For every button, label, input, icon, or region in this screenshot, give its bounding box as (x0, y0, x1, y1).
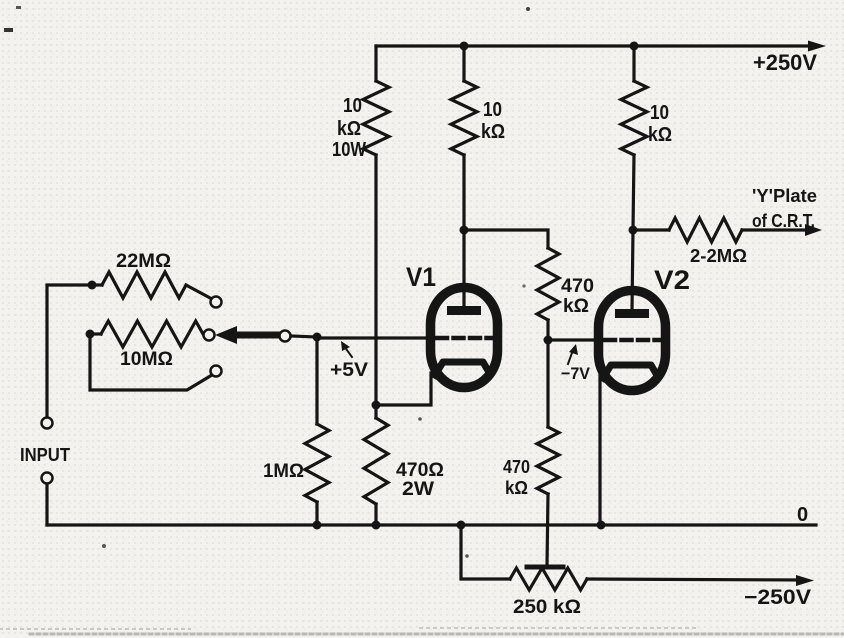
svg-text:kΩ: kΩ (563, 296, 589, 317)
tube V2 envelope (599, 291, 666, 391)
svg-text:V2: V2 (654, 265, 690, 295)
wire V1 cathode lead (376, 373, 431, 405)
wire input left riser (47, 285, 102, 418)
wire output lead to CRT (742, 228, 812, 231)
svg-text:10: 10 (483, 99, 502, 121)
svg-text:0: 0 (797, 504, 808, 526)
scan speck near 470R (418, 417, 422, 421)
tube V1 anode plate bar (447, 306, 481, 315)
svg-text:of C.R.T.: of C.R.T. (752, 211, 815, 231)
tube V1 grid (dashed) (437, 336, 493, 341)
scan speck near pot (465, 554, 469, 558)
wire R7 lead to contact (186, 285, 212, 299)
wire V2 anode lead (632, 230, 633, 311)
node 0 rail / 470R junction (372, 521, 381, 530)
wire +250V supply rail (376, 44, 815, 47)
svg-text:10: 10 (650, 102, 669, 124)
svg-text:'Y'Plate: 'Y'Plate (752, 186, 817, 206)
node attenuator mid junction (86, 330, 95, 339)
selector wiper terminal circle (280, 331, 291, 342)
wire R10 bottom to 0 rail (374, 504, 377, 525)
resistor R5 470kΩ coupling (537, 248, 559, 320)
tube V2 cathode (603, 365, 658, 378)
potentiometer 250 kΩ (510, 568, 587, 590)
selector wiper arrow (233, 332, 280, 339)
svg-text:10: 10 (343, 95, 362, 117)
scan speck top-left edge (4, 28, 13, 32)
switch contact 3 (direct) (211, 366, 222, 377)
node 0 rail / pot branch junction (457, 521, 466, 530)
svg-text:10MΩ: 10MΩ (120, 349, 173, 370)
svg-text:22MΩ: 22MΩ (116, 251, 171, 272)
-250V arrowhead (796, 575, 814, 586)
node top rail / R3 junction (630, 42, 639, 51)
node V1 grid junction (313, 333, 322, 342)
tube V2 grid (dashed) (605, 338, 661, 343)
svg-text:V1: V1 (406, 262, 436, 292)
label -7V with pointer (568, 350, 573, 364)
scan speck top-left 2 (16, 6, 21, 9)
wire R3 top lead (632, 46, 635, 81)
wire R2 bottom to V1 anode node (462, 155, 465, 230)
resistor R1 10kΩ 10W (363, 81, 389, 155)
svg-text:kΩ: kΩ (337, 118, 361, 140)
wire R9 bottom to 0 rail (315, 502, 318, 525)
wire pot right to -250V arrow (587, 579, 802, 580)
INPUT terminal lower (42, 473, 53, 484)
+250V rail arrowhead (808, 41, 826, 52)
wire V2 grid lead (548, 338, 600, 341)
svg-text:250 kΩ: 250 kΩ (513, 597, 581, 618)
resistor R10 470Ω 2W cathode (374, 405, 377, 418)
wire R2 top lead (462, 46, 465, 81)
svg-text:−7V: −7V (561, 364, 591, 383)
scan speck right margin (522, 284, 525, 287)
output arrowhead (805, 224, 822, 236)
scan speck top-middle (526, 7, 530, 11)
node 0 rail / V2 cathode junction (597, 521, 606, 530)
wire direct branch (90, 334, 212, 390)
resistor R9 1MΩ grid leak (315, 337, 318, 424)
INPUT terminal upper (42, 418, 53, 429)
tube V1 cathode (435, 362, 490, 375)
label +5V with pointer (344, 346, 352, 357)
tube V2 anode plate bar (615, 309, 649, 318)
svg-text:2W: 2W (402, 479, 434, 500)
node 0 rail / 1M junction (313, 521, 322, 530)
svg-text:1MΩ: 1MΩ (263, 461, 304, 482)
resistor R7 22MΩ (102, 272, 186, 298)
node V2 grid junction (544, 336, 553, 345)
resistor R2 10kΩ (451, 81, 477, 155)
wire V2 cathode lead to 0 rail (598, 374, 601, 525)
svg-text:470Ω: 470Ω (396, 460, 444, 481)
potentiometer wiper bar (527, 565, 563, 570)
svg-text:+5V: +5V (330, 360, 368, 381)
node V1 anode junction (460, 226, 469, 235)
tube V1 envelope (431, 288, 498, 388)
wire 10M branch (90, 332, 101, 335)
node V1 cathode junction (372, 401, 381, 410)
svg-text:2-2MΩ: 2-2MΩ (690, 246, 747, 266)
svg-text:+250V: +250V (753, 50, 817, 75)
wire wiper to grid node (291, 336, 317, 337)
node V2 anode junction (629, 226, 638, 235)
wire V2 anode to output resistor (633, 228, 669, 231)
wire R5 bottom to V2 grid node (546, 320, 549, 340)
switch contact 1 (22M) (211, 297, 222, 308)
switch contact 2 (10M) (204, 330, 215, 341)
scan speck below switch (102, 544, 106, 548)
svg-text:kΩ: kΩ (648, 124, 672, 146)
resistor R3 10kΩ (621, 81, 647, 155)
resistor R6 470kΩ grid-to-wiper (546, 340, 549, 427)
wire R1 bottom to cathode node (374, 155, 377, 405)
resistor R8 10MΩ (101, 321, 203, 347)
wire V1 anode lead (462, 230, 465, 308)
svg-text:10W: 10W (332, 139, 366, 161)
svg-text:470: 470 (503, 457, 530, 477)
wire 0 rail (47, 523, 816, 526)
wire R1 top lead (374, 46, 377, 81)
wire R6 bottom to potentiometer wiper (547, 494, 548, 566)
node attenuator top junction (88, 281, 97, 290)
svg-text:470: 470 (561, 276, 594, 297)
resistor R4 2-2MΩ output (669, 218, 742, 242)
svg-text:kΩ: kΩ (481, 121, 505, 143)
wire input lower to 0 rail (45, 484, 48, 525)
svg-text:−250V: −250V (744, 586, 811, 609)
node top rail / R2 junction (460, 42, 469, 51)
svg-text:INPUT: INPUT (20, 445, 70, 465)
scan noise band bottom edge (30, 633, 844, 636)
svg-text:kΩ: kΩ (505, 478, 528, 498)
wire anode node to coupling resistor R5 (464, 230, 548, 248)
wire V1 grid lead (317, 336, 434, 339)
wire 0 rail down to pot left (461, 525, 510, 579)
wire R3 bottom to V2 anode node (633, 155, 634, 230)
